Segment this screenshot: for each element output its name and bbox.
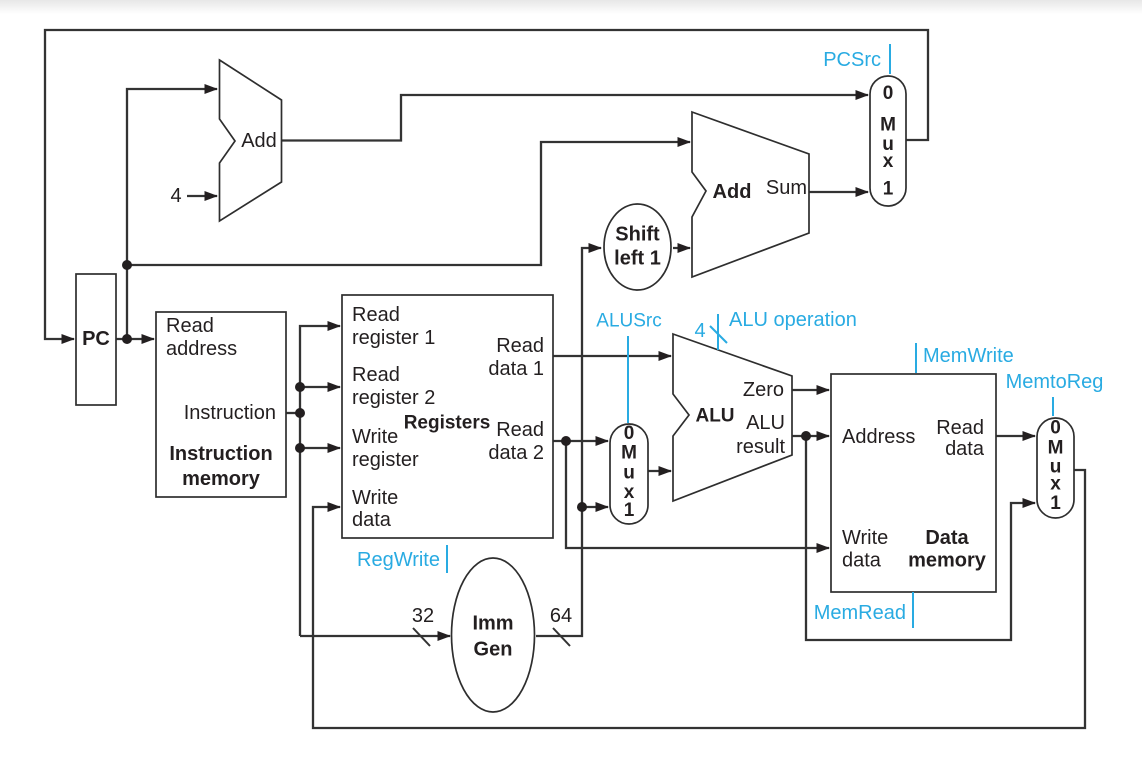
mux MemtoReg: [1037, 418, 1074, 519]
wire: ALU result to Data memory Address: [792, 435, 829, 437]
svg-text:register 1: register 1: [352, 327, 435, 349]
wire: Read data 2 down to Data memory Write data: [566, 441, 829, 548]
imm gen ellipse: [452, 558, 535, 712]
svg-text:Read: Read: [352, 364, 400, 386]
wire: PCSrc mux output loop to PC: [45, 30, 928, 339]
svg-text:0: 0: [1050, 418, 1061, 439]
svg-text:Registers: Registers: [404, 413, 491, 434]
bus slash 64: [553, 628, 570, 646]
wire: Read data 1 to ALU input: [553, 355, 671, 357]
svg-text:1: 1: [624, 500, 635, 521]
svg-text:register: register: [352, 449, 419, 471]
svg-text:PCSrc: PCSrc: [823, 49, 881, 71]
svg-text:4: 4: [170, 185, 181, 207]
wire: instruction output stub: [286, 412, 300, 414]
mux ALUSrc: [610, 423, 648, 524]
svg-text:memory: memory: [182, 468, 261, 490]
svg-text:x: x: [883, 151, 894, 172]
junction dot: instruction stub: [295, 408, 305, 418]
junction dot: ALU result branch: [801, 431, 811, 441]
junction dot: read data 2 branch: [561, 436, 571, 446]
adder Add (branch target): [692, 112, 809, 277]
registers box: [342, 295, 553, 538]
wire: instruction to Imm Gen: [300, 635, 450, 637]
control line MemWrite: [915, 343, 917, 373]
svg-text:ALU operation: ALU operation: [729, 309, 857, 331]
wire: immediate to ALUSrc mux input 1: [582, 506, 608, 508]
svg-text:M: M: [880, 115, 896, 136]
svg-text:M: M: [621, 443, 637, 464]
control line RegWrite: [446, 545, 448, 573]
svg-text:64: 64: [550, 605, 572, 627]
wire: top Add output to PCSrc mux input 0: [282, 95, 869, 141]
svg-text:data: data: [352, 509, 392, 531]
svg-text:0: 0: [883, 83, 894, 104]
svg-text:Address: Address: [842, 426, 915, 448]
bus slash 32: [413, 628, 430, 646]
svg-text:Read: Read: [166, 315, 214, 337]
adder Add (PC+4): [220, 60, 282, 221]
svg-text:x: x: [1050, 474, 1061, 495]
svg-text:0: 0: [624, 423, 635, 444]
svg-text:Sum: Sum: [766, 177, 807, 199]
wire: instruction to Read register 2: [300, 386, 340, 388]
svg-text:data: data: [945, 438, 985, 460]
control line MemRead: [912, 592, 914, 628]
svg-text:1: 1: [1050, 493, 1061, 514]
wire: instruction to Write register: [300, 447, 340, 449]
svg-text:ALU: ALU: [695, 406, 734, 427]
svg-text:Data: Data: [925, 527, 969, 549]
control line ALU operation: [717, 314, 719, 350]
svg-text:Write: Write: [352, 426, 398, 448]
svg-text:MemWrite: MemWrite: [923, 345, 1014, 367]
svg-text:4: 4: [694, 320, 705, 342]
wire: constant 4 into top Add: [187, 195, 217, 197]
svg-text:RegWrite: RegWrite: [357, 549, 440, 571]
instruction memory box: [156, 312, 286, 497]
svg-text:PC: PC: [82, 328, 110, 350]
wire: Read data 2 to ALUSrc mux input 0: [553, 440, 608, 442]
svg-text:memory: memory: [908, 550, 987, 572]
svg-text:Shift: Shift: [615, 224, 660, 246]
junction dot: PC output: [122, 334, 132, 344]
svg-text:Imm: Imm: [472, 613, 513, 635]
ALU: [673, 334, 792, 501]
wire: PC to branch Add top input: [127, 142, 690, 265]
svg-text:Gen: Gen: [474, 639, 513, 661]
svg-text:ALUSrc: ALUSrc: [596, 311, 661, 332]
wire: branch Add Sum to PCSrc mux input 1: [809, 191, 868, 193]
mux PCSrc: [870, 76, 906, 206]
svg-text:1: 1: [883, 179, 894, 200]
svg-text:Instruction: Instruction: [184, 402, 276, 424]
svg-text:result: result: [736, 436, 785, 458]
shift left 1 ellipse: [604, 204, 671, 290]
svg-text:Instruction: Instruction: [169, 443, 272, 465]
svg-text:32: 32: [412, 605, 434, 627]
svg-text:Read: Read: [496, 419, 544, 441]
data memory box: [831, 374, 996, 592]
junction dot: instruction to write register: [295, 443, 305, 453]
svg-text:Write: Write: [842, 527, 888, 549]
wire: MemtoReg mux output loop back to Registers Write data: [313, 470, 1085, 728]
svg-text:M: M: [1048, 438, 1064, 459]
control bus tick ALU operation: [710, 326, 727, 343]
control line MemtoReg: [1052, 397, 1054, 416]
svg-text:MemtoReg: MemtoReg: [1006, 371, 1104, 393]
svg-text:left 1: left 1: [614, 248, 661, 270]
control line PCSrc: [889, 44, 891, 74]
junction dot: immediate branch: [577, 502, 587, 512]
wire: PC to Instruction memory read address: [116, 338, 154, 340]
register PC: [76, 274, 116, 405]
wire: ALU Zero output: [792, 389, 829, 391]
junction dot: PC bus to branch adder: [122, 260, 132, 270]
svg-text:data 2: data 2: [488, 442, 544, 464]
svg-text:Read: Read: [496, 335, 544, 357]
control line ALUSrc: [627, 336, 629, 423]
wire: ALUSrc mux output to ALU input: [648, 470, 671, 472]
wire: Imm Gen output up to Shift left 1: [536, 248, 601, 636]
svg-text:Write: Write: [352, 487, 398, 509]
svg-text:address: address: [166, 338, 237, 360]
svg-text:data 1: data 1: [488, 358, 544, 380]
svg-text:Zero: Zero: [743, 379, 784, 401]
svg-text:ALU: ALU: [746, 412, 785, 434]
wire: Data memory Read data to MemtoReg mux input 0: [996, 435, 1035, 437]
svg-text:Read: Read: [936, 417, 984, 439]
wire: ALU result down to MemtoReg mux input 1: [806, 436, 1035, 640]
svg-text:u: u: [623, 463, 635, 484]
wire: PC up to top Add input: [127, 89, 217, 339]
wire: instruction vertical bus to Read register 1: [300, 326, 340, 636]
svg-text:MemRead: MemRead: [814, 602, 906, 624]
svg-text:Add: Add: [241, 130, 277, 152]
svg-text:data: data: [842, 550, 882, 572]
svg-text:register 2: register 2: [352, 387, 435, 409]
svg-text:Add: Add: [713, 181, 752, 203]
junction dot: instruction to read register 2: [295, 382, 305, 392]
wire: Shift left 1 output to branch Add: [673, 247, 690, 249]
svg-text:Read: Read: [352, 304, 400, 326]
